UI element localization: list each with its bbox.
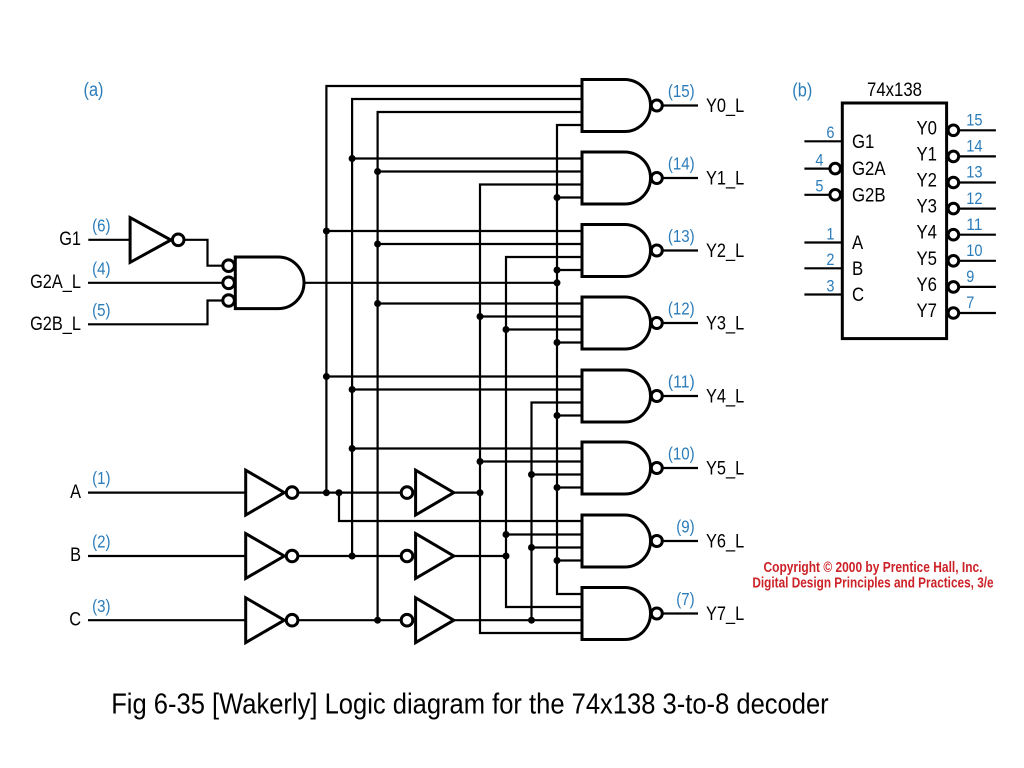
svg-text:Y5_L: Y5_L <box>706 458 744 479</box>
svg-text:Digital Design Principles and: Digital Design Principles and Practices,… <box>752 575 993 591</box>
svg-text:1: 1 <box>826 224 834 243</box>
svg-text:(15): (15) <box>668 81 695 101</box>
svg-text:Y1_L: Y1_L <box>706 168 744 189</box>
svg-text:(13): (13) <box>668 226 695 246</box>
svg-text:(1): (1) <box>92 468 110 488</box>
svg-text:(10): (10) <box>668 444 695 464</box>
svg-text:4: 4 <box>815 151 823 170</box>
svg-text:(3): (3) <box>92 596 110 616</box>
svg-text:(5): (5) <box>92 300 110 320</box>
svg-text:B: B <box>852 258 863 280</box>
svg-text:74x138: 74x138 <box>867 79 922 101</box>
svg-text:(4): (4) <box>92 258 110 278</box>
svg-text:Y2: Y2 <box>917 170 938 192</box>
svg-text:15: 15 <box>966 111 982 130</box>
svg-text:G1: G1 <box>852 131 874 153</box>
svg-text:G2A_L: G2A_L <box>30 272 81 293</box>
svg-text:5: 5 <box>815 177 823 196</box>
svg-text:B: B <box>70 545 81 566</box>
svg-text:13: 13 <box>966 163 982 182</box>
svg-text:(9): (9) <box>676 517 694 537</box>
svg-text:14: 14 <box>966 137 982 156</box>
svg-text:Y6_L: Y6_L <box>706 531 744 552</box>
svg-text:Y1: Y1 <box>917 143 938 165</box>
svg-text:Y3: Y3 <box>917 196 938 218</box>
svg-text:Y7: Y7 <box>917 300 938 322</box>
svg-text:10: 10 <box>966 241 982 260</box>
svg-text:Y0_L: Y0_L <box>706 96 744 117</box>
svg-text:Y4: Y4 <box>917 222 938 244</box>
svg-text:(7): (7) <box>676 589 694 609</box>
svg-text:(b): (b) <box>792 81 812 102</box>
svg-text:6: 6 <box>826 123 834 142</box>
svg-text:(14): (14) <box>668 154 695 174</box>
svg-text:(6): (6) <box>92 216 110 236</box>
svg-text:Fig 6-35 [Wakerly] Logic diagr: Fig 6-35 [Wakerly] Logic diagram for the… <box>111 688 829 720</box>
svg-text:Y3_L: Y3_L <box>706 313 744 334</box>
svg-text:G2B_L: G2B_L <box>30 314 81 335</box>
svg-text:Copyright © 2000 by Prentice H: Copyright © 2000 by Prentice Hall, Inc. <box>764 560 983 576</box>
svg-text:G2A: G2A <box>852 158 886 180</box>
svg-text:7: 7 <box>966 293 974 312</box>
svg-text:Y5: Y5 <box>917 248 938 270</box>
svg-text:2: 2 <box>826 250 834 269</box>
svg-text:G1: G1 <box>59 229 81 250</box>
svg-text:Y0: Y0 <box>917 117 938 139</box>
svg-text:(2): (2) <box>92 532 110 552</box>
svg-text:C: C <box>852 284 864 306</box>
svg-text:C: C <box>69 609 81 630</box>
svg-text:(12): (12) <box>668 299 695 319</box>
svg-text:Y6: Y6 <box>917 274 938 296</box>
svg-text:(a): (a) <box>84 80 104 101</box>
svg-text:A: A <box>852 232 863 254</box>
svg-text:Y2_L: Y2_L <box>706 241 744 262</box>
svg-text:Y7_L: Y7_L <box>706 604 744 625</box>
svg-text:Y4_L: Y4_L <box>706 386 744 407</box>
svg-text:11: 11 <box>966 215 982 234</box>
svg-text:3: 3 <box>826 276 834 295</box>
svg-text:G2B: G2B <box>852 184 886 206</box>
svg-text:12: 12 <box>966 189 982 208</box>
svg-text:9: 9 <box>966 267 974 286</box>
svg-text:(11): (11) <box>668 372 695 392</box>
svg-text:A: A <box>70 482 81 503</box>
